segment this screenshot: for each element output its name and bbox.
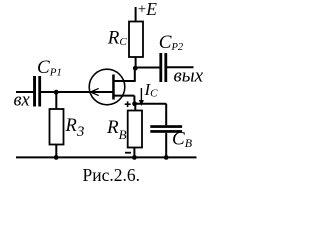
svg-text:вых: вых bbox=[174, 66, 204, 87]
node C_B ground dot bbox=[164, 155, 169, 160]
resistor R_3 bbox=[50, 109, 64, 145]
wire node A to C_P2 bbox=[135, 67, 160, 69]
svg-text:вх: вх bbox=[14, 90, 31, 110]
wire C_P1 to emitter bbox=[41, 91, 113, 93]
wire node B to C_B bbox=[134, 103, 166, 105]
capacitor C_B bbox=[150, 125, 182, 133]
polarity minus sign bbox=[125, 152, 131, 154]
wire +E supply lead bbox=[135, 7, 137, 22]
svg-text:E: E bbox=[145, 0, 157, 19]
resistor R_B bbox=[128, 111, 142, 148]
wire ground bus bbox=[16, 156, 197, 158]
wire base drop bbox=[133, 96, 135, 104]
wire C_B bottom lead bbox=[165, 133, 167, 158]
node input junction dot bbox=[54, 90, 59, 95]
transistor VT circle bbox=[89, 69, 125, 105]
polarity plus sign bbox=[125, 101, 131, 107]
wire R_3 bottom lead bbox=[55, 145, 57, 158]
node B junction dot bbox=[132, 101, 137, 106]
wire collector lead bbox=[114, 80, 136, 82]
node A junction dot bbox=[133, 66, 138, 71]
svg-text:+: + bbox=[138, 1, 146, 17]
wire input line bbox=[16, 91, 33, 93]
current arrow I_C bbox=[139, 88, 144, 106]
node R_B ground dot bbox=[132, 155, 137, 160]
transistor base bar bbox=[112, 75, 115, 100]
wire R_B bottom lead bbox=[133, 148, 135, 158]
capacitor C_P1 bbox=[33, 76, 41, 107]
wire base lead bbox=[114, 95, 134, 97]
wire C_B top lead bbox=[165, 104, 167, 126]
svg-text:Рис.2.6.: Рис.2.6. bbox=[83, 165, 141, 185]
wire C_P2 to output bbox=[167, 66, 194, 68]
node R_3 ground dot bbox=[54, 155, 59, 160]
wire R_3 top lead bbox=[55, 92, 57, 109]
wire collector riser bbox=[134, 68, 136, 81]
capacitor C_P2 bbox=[159, 53, 167, 82]
transistor emitter arrow bbox=[89, 88, 98, 95]
wire R_B top lead bbox=[134, 104, 136, 111]
wire R_C bottom lead bbox=[135, 57, 137, 68]
resistor R_C bbox=[129, 22, 143, 58]
